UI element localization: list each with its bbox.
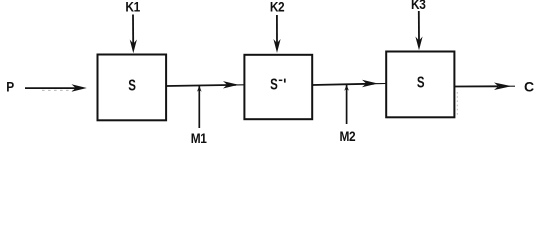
wire from S (stage1) to S-1 (stage2) with arrow — [167, 81, 245, 88]
wire K2 arrow down into S-1 block — [273, 15, 280, 53]
node M2 tap: vertical pointer line with small up arrowhead — [344, 84, 349, 124]
label superscript 1 of S-1 — [284, 79, 286, 83]
svg-text:S: S — [128, 76, 136, 94]
wire from S-1 (stage2) to S (stage3) with arrow — [312, 80, 385, 87]
svg-text:P: P — [6, 79, 14, 95]
scan artifact dashes under P arrow — [42, 89, 73, 91]
wire K1 arrow down into first S block — [130, 15, 137, 54]
wire C output arrow from third S block — [455, 83, 515, 91]
svg-text:M2: M2 — [339, 128, 355, 144]
wire P input arrow into first S block — [25, 84, 87, 91]
svg-text:S: S — [270, 75, 278, 93]
node M1 tap: vertical pointer line with small up arrowhead — [197, 86, 202, 129]
wire K3 arrow down into third S block — [415, 11, 422, 50]
svg-text:K2: K2 — [270, 0, 285, 15]
svg-text:K3: K3 — [411, 0, 426, 12]
label superscript minus of S-1 — [279, 79, 283, 81]
block U2: S-1 (decryption stage 2) — [244, 55, 312, 119]
scan artifact dotted trail right of third S block — [456, 92, 458, 116]
block U3: S (encryption stage 3) — [386, 52, 454, 118]
svg-text:M1: M1 — [191, 130, 207, 146]
block U1: S (encryption stage 1) — [98, 55, 167, 121]
svg-text:C: C — [524, 79, 534, 95]
svg-text:K1: K1 — [125, 0, 140, 15]
svg-text:S: S — [417, 72, 425, 90]
